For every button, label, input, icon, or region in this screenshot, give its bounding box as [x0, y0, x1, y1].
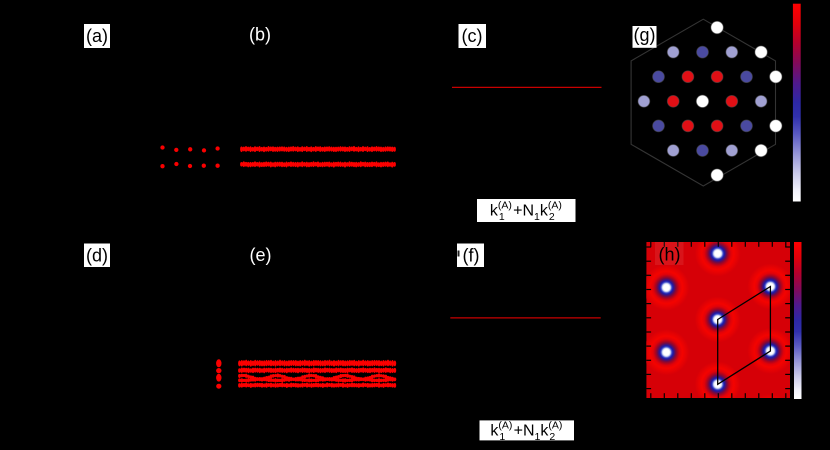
svg-text:+N: +N [513, 203, 534, 220]
panel h ticks [646, 242, 790, 398]
svg-text:(g): (g) [634, 25, 656, 45]
svg-text:(A): (A) [548, 420, 562, 432]
svg-text:(A): (A) [548, 200, 562, 212]
k label top [477, 199, 576, 222]
panel g hexagon [631, 19, 775, 186]
svg-text:2: 2 [549, 431, 555, 443]
panel h unit cell [718, 287, 771, 385]
svg-text:2: 2 [549, 211, 555, 223]
panel f line [450, 317, 600, 319]
panel d blobs [216, 359, 221, 388]
svg-text:(a): (a) [86, 26, 108, 46]
svg-text:(f): (f) [463, 246, 480, 266]
label g [633, 26, 657, 48]
svg-text:(h): (h) [659, 245, 681, 265]
svg-text:1: 1 [499, 211, 505, 223]
panel g dots [638, 21, 782, 181]
label f [457, 244, 484, 268]
panel g colorbar [793, 4, 801, 202]
label a [84, 24, 110, 48]
panel e bands [238, 360, 396, 388]
svg-text:+N: +N [514, 423, 535, 440]
svg-text:(A): (A) [498, 200, 512, 212]
svg-text:(b): (b) [249, 25, 271, 45]
k label bottom [480, 420, 575, 440]
label c [459, 24, 487, 48]
svg-text:(e): (e) [250, 245, 272, 265]
panel a dots [160, 145, 219, 168]
panel h colorbar [794, 242, 802, 399]
panel b bands [240, 146, 396, 168]
label h [655, 242, 684, 265]
label d [84, 244, 110, 268]
svg-text:(c): (c) [462, 26, 483, 46]
svg-text:1: 1 [499, 431, 505, 443]
panel c line [452, 86, 602, 88]
svg-text:(A): (A) [498, 420, 512, 432]
svg-text:(d): (d) [86, 246, 108, 266]
